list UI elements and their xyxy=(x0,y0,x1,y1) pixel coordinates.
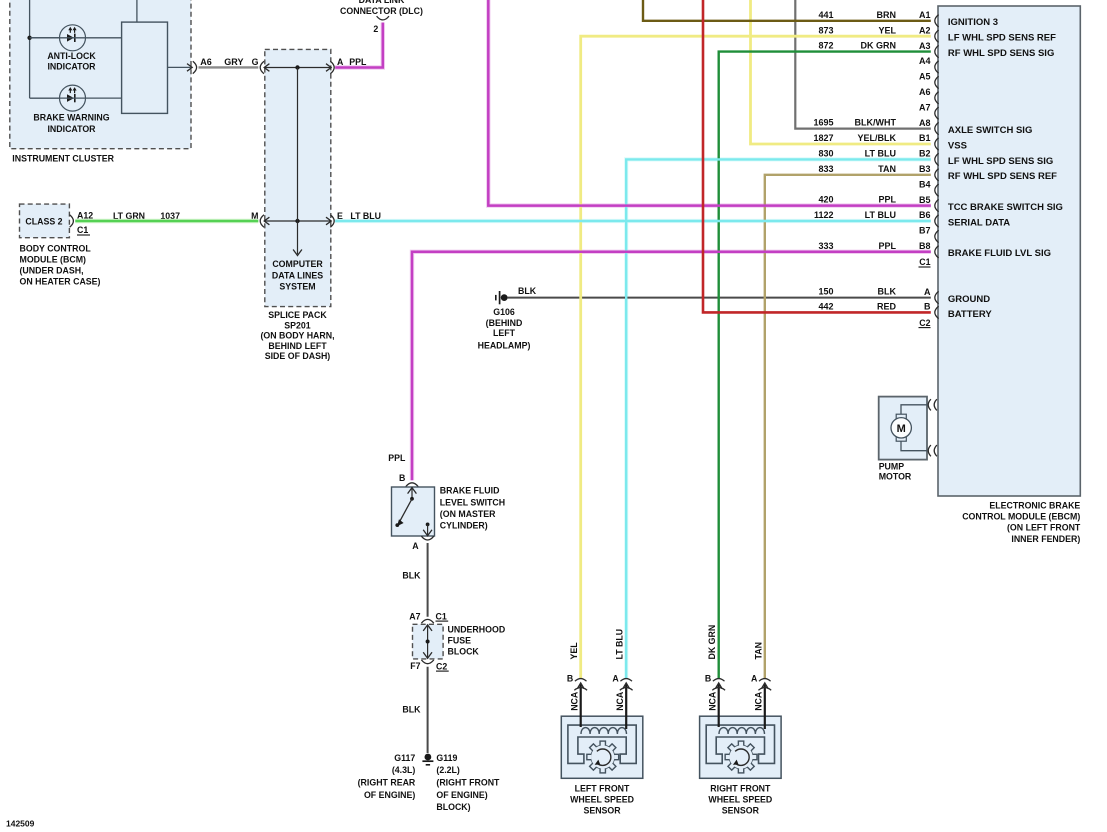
connector EBCM pin A7 xyxy=(935,107,939,119)
svg-text:WHEEL SPEED: WHEEL SPEED xyxy=(708,795,772,805)
EBCM box xyxy=(938,6,1080,496)
svg-text:B4: B4 xyxy=(919,179,931,189)
wire RED 442 xyxy=(703,0,931,312)
label CLASS 2 xyxy=(25,217,62,227)
label TAN (vertical) xyxy=(753,642,763,659)
svg-text:B1: B1 xyxy=(919,133,931,143)
connector EBCM pin B1 xyxy=(935,138,939,150)
wire IC left bus xyxy=(30,0,60,98)
svg-text:FUSE: FUSE xyxy=(448,636,472,646)
svg-text:WHEEL SPEED: WHEEL SPEED xyxy=(570,795,634,805)
svg-text:873: 873 xyxy=(818,25,833,35)
svg-text:SENSOR: SENSOR xyxy=(722,806,760,816)
connector LF sensor pin B xyxy=(567,674,587,691)
label G119 column xyxy=(436,753,500,812)
label A7 C1 xyxy=(409,611,448,621)
svg-text:NCA: NCA xyxy=(569,691,579,711)
connector splice pin A xyxy=(330,61,334,73)
svg-text:YEL: YEL xyxy=(569,642,579,660)
svg-text:BRN: BRN xyxy=(877,10,897,20)
label 833 TAN xyxy=(818,164,896,174)
wire lamp1 to driver xyxy=(30,37,122,39)
svg-text:1695: 1695 xyxy=(813,118,833,128)
label A12 C1 xyxy=(77,210,93,235)
splice pack box xyxy=(265,49,331,306)
svg-text:BLK: BLK xyxy=(518,286,537,296)
connector RF sensor pin A xyxy=(751,674,771,691)
label 872 DK GRN xyxy=(818,41,896,51)
svg-text:OF ENGINE): OF ENGINE) xyxy=(364,790,415,800)
label ANTI-LOCK INDICATOR xyxy=(47,51,96,72)
svg-text:B8: B8 xyxy=(919,241,931,251)
wire DK GRN 872 (EBCM A3 to RF sensor B) xyxy=(719,52,931,678)
svg-text:BLK: BLK xyxy=(878,287,897,297)
svg-text:LT BLU: LT BLU xyxy=(350,211,381,221)
wire BLK fuse block to ground xyxy=(427,667,429,753)
svg-text:BRAKE FLUID: BRAKE FLUID xyxy=(440,486,500,496)
underhood fuse block box xyxy=(413,624,444,659)
svg-text:CYLINDER): CYLINDER) xyxy=(440,521,488,531)
svg-text:G106: G106 xyxy=(493,307,515,317)
svg-text:(4.3L): (4.3L) xyxy=(392,765,416,775)
label 1122 LT BLU xyxy=(814,210,896,220)
brake warning indicator lamp xyxy=(60,85,86,111)
svg-text:BLK/WHT: BLK/WHT xyxy=(855,118,897,128)
svg-text:(ON MASTER: (ON MASTER xyxy=(440,509,496,519)
svg-text:C2: C2 xyxy=(436,661,447,671)
label COMPUTER DATA LINES SYSTEM xyxy=(272,259,323,292)
svg-text:MOTOR: MOTOR xyxy=(879,472,912,482)
label PPL (DLC) xyxy=(349,57,367,67)
connector EBCM pin B3 xyxy=(935,169,939,181)
svg-text:LF WHL SPD SENS SIG: LF WHL SPD SENS SIG xyxy=(948,156,1053,167)
wire LT BLU 1122 (splice E to EBCM B6) xyxy=(335,220,931,222)
svg-text:PPL: PPL xyxy=(388,453,406,463)
svg-text:PPL: PPL xyxy=(878,195,896,205)
svg-text:CONTROL MODULE (EBCM): CONTROL MODULE (EBCM) xyxy=(962,512,1080,522)
label UNDERHOOD FUSE BLOCK xyxy=(448,624,506,656)
svg-text:LEFT FRONT: LEFT FRONT xyxy=(575,783,630,793)
svg-text:(UNDER DASH,: (UNDER DASH, xyxy=(20,265,84,275)
svg-text:A7: A7 xyxy=(409,611,420,621)
connector EBCM pin A5 xyxy=(935,76,939,88)
svg-text:M: M xyxy=(897,423,906,435)
label 1827 YEL/BLK xyxy=(813,133,896,143)
IC driver block xyxy=(122,22,168,113)
label G106 xyxy=(478,307,531,350)
svg-text:(RIGHT FRONT: (RIGHT FRONT xyxy=(436,778,500,788)
svg-text:SPLICE PACK: SPLICE PACK xyxy=(268,310,327,320)
svg-text:CLASS 2: CLASS 2 xyxy=(25,217,62,227)
svg-text:LF WHL SPD SENS REF: LF WHL SPD SENS REF xyxy=(948,33,1056,44)
svg-text:RIGHT FRONT: RIGHT FRONT xyxy=(710,783,771,793)
svg-text:A: A xyxy=(751,674,758,684)
switch internals xyxy=(395,488,432,536)
svg-text:YEL: YEL xyxy=(878,25,896,35)
svg-text:COMPUTER: COMPUTER xyxy=(272,259,323,269)
svg-text:A4: A4 xyxy=(919,56,931,66)
label F7 C2 xyxy=(410,661,448,672)
svg-text:CONNECTOR (DLC): CONNECTOR (DLC) xyxy=(340,6,423,16)
svg-text:441: 441 xyxy=(818,10,833,20)
svg-text:833: 833 xyxy=(818,164,833,174)
wire LT GRN 1037 xyxy=(75,220,258,223)
svg-text:C1: C1 xyxy=(77,225,88,235)
connector EBCM pin B6 xyxy=(935,215,939,227)
connector EBCM pin A8 xyxy=(935,122,939,134)
svg-text:BATTERY: BATTERY xyxy=(948,309,992,320)
label A6 GRY xyxy=(200,57,243,67)
label DK GRN (vertical) xyxy=(707,625,717,660)
junction IC bus xyxy=(27,36,31,40)
wire BLK 150 (G106 to EBCM A) xyxy=(508,297,931,299)
svg-text:SERIAL DATA: SERIAL DATA xyxy=(948,217,1010,228)
svg-text:NCA: NCA xyxy=(615,691,625,711)
svg-text:150: 150 xyxy=(818,287,833,297)
svg-text:C1: C1 xyxy=(919,257,930,267)
label PPL (switch) xyxy=(388,453,406,463)
connector fuse block pin A7 xyxy=(421,619,433,623)
connector LF sensor pin A xyxy=(612,674,632,691)
svg-text:A1: A1 xyxy=(919,10,931,20)
wire BLK/WHT 1695 xyxy=(795,0,931,129)
svg-text:SP201: SP201 xyxy=(284,320,311,330)
svg-text:G119: G119 xyxy=(436,753,457,763)
svg-text:G117: G117 xyxy=(394,753,415,763)
junction splice row1 xyxy=(295,65,299,69)
svg-text:A: A xyxy=(924,287,931,297)
wire YEL/BLK 1827 xyxy=(751,0,931,144)
svg-text:A3: A3 xyxy=(919,41,931,51)
label NCA (RF B) xyxy=(707,691,717,711)
label BLK (upper) xyxy=(402,571,421,581)
connector splice pin M xyxy=(260,215,264,227)
svg-text:G: G xyxy=(252,57,259,67)
BCM box xyxy=(20,204,70,238)
svg-text:SYSTEM: SYSTEM xyxy=(279,281,315,291)
svg-text:BLOCK): BLOCK) xyxy=(436,802,470,812)
svg-text:TCC BRAKE SWITCH SIG: TCC BRAKE SWITCH SIG xyxy=(948,202,1063,213)
svg-text:LEVEL SWITCH: LEVEL SWITCH xyxy=(440,497,505,507)
label 420 PPL xyxy=(818,195,896,205)
svg-text:INDICATOR: INDICATOR xyxy=(47,124,96,134)
svg-text:BLK: BLK xyxy=(402,705,421,715)
wire LT BLU 830 (EBCM B2 to LF sensor A) xyxy=(626,159,931,678)
svg-text:B3: B3 xyxy=(919,164,931,174)
svg-text:RED: RED xyxy=(877,302,897,312)
svg-text:442: 442 xyxy=(818,302,833,312)
anti-lock indicator lamp xyxy=(60,25,86,51)
label switch pin B xyxy=(399,473,405,483)
connector DLC pin 2 xyxy=(377,16,389,20)
svg-text:ON HEATER CASE): ON HEATER CASE) xyxy=(20,276,101,286)
svg-text:C2: C2 xyxy=(919,318,930,328)
labels EBCM signals xyxy=(948,17,1063,320)
svg-text:A7: A7 xyxy=(919,102,931,112)
diagram id 142509 xyxy=(6,819,35,829)
wire PPL DLC to splice A xyxy=(335,23,383,68)
label NCA (RF A) xyxy=(754,691,764,711)
connector EBCM pin B2 xyxy=(935,153,939,165)
svg-text:830: 830 xyxy=(818,149,833,159)
wire GRY A6 xyxy=(199,66,259,68)
label BRAKE WARNING INDICATOR xyxy=(33,113,109,134)
svg-text:RF WHL SPD SENS REF: RF WHL SPD SENS REF xyxy=(948,171,1057,182)
connector BCM pin A12 xyxy=(70,215,74,227)
connector splice pin E xyxy=(330,215,334,227)
svg-text:LT BLU: LT BLU xyxy=(865,149,896,159)
connector pump motor bottom xyxy=(928,445,937,456)
svg-text:(ON LEFT FRONT: (ON LEFT FRONT xyxy=(1007,523,1081,533)
wire casing LT BLU 830 xyxy=(626,159,931,678)
svg-text:INSTRUMENT CLUSTER: INSTRUMENT CLUSTER xyxy=(12,154,114,164)
label BRAKE FLUID LEVEL SWITCH xyxy=(440,486,505,531)
label 441 BRN xyxy=(818,10,896,20)
svg-text:MODULE (BCM): MODULE (BCM) xyxy=(20,254,87,264)
connector EBCM pin A6 xyxy=(935,92,939,104)
label YEL (vertical) xyxy=(569,642,579,660)
label 873 YEL xyxy=(818,25,896,35)
svg-text:A5: A5 xyxy=(919,72,931,82)
svg-text:420: 420 xyxy=(818,195,833,205)
fuse block internals xyxy=(423,625,432,658)
wire TAN 833 (EBCM B3 to RF sensor A) xyxy=(765,175,931,678)
wire casing LT BLU 1122 xyxy=(335,219,931,223)
right front wheel speed sensor xyxy=(700,684,782,816)
connector splice pin G xyxy=(260,61,264,73)
connector switch pin B xyxy=(406,483,418,487)
instrument cluster box xyxy=(10,0,191,149)
label PUMP MOTOR xyxy=(879,462,912,482)
svg-text:(ON BODY HARN,: (ON BODY HARN, xyxy=(260,331,334,341)
motor M symbol xyxy=(891,414,911,441)
svg-text:SIDE OF DASH): SIDE OF DASH) xyxy=(265,351,331,361)
svg-text:YEL/BLK: YEL/BLK xyxy=(857,133,896,143)
svg-text:A: A xyxy=(612,674,619,684)
label 830 LT BLU xyxy=(818,149,896,159)
wire BLK switch to fuse block xyxy=(427,543,429,617)
wire casing PPL (DLC) xyxy=(335,23,383,68)
svg-text:A8: A8 xyxy=(919,118,931,128)
pump motor box xyxy=(879,397,927,460)
svg-text:2: 2 xyxy=(373,24,378,34)
connector pump motor top xyxy=(928,399,937,410)
svg-text:DATA LINK: DATA LINK xyxy=(359,0,405,5)
svg-text:F7: F7 xyxy=(410,661,420,671)
svg-text:(RIGHT REAR: (RIGHT REAR xyxy=(358,778,416,788)
connector IC pin A6 xyxy=(187,61,197,73)
label BLK (G106) xyxy=(518,286,537,296)
connector EBCM pin B7 xyxy=(935,230,939,242)
label BLK (lower) xyxy=(402,705,421,715)
svg-text:(BEHIND: (BEHIND xyxy=(486,318,523,328)
svg-text:ELECTRONIC BRAKE: ELECTRONIC BRAKE xyxy=(989,501,1080,511)
svg-text:B: B xyxy=(567,674,573,684)
svg-text:PPL: PPL xyxy=(878,241,896,251)
svg-text:DK GRN: DK GRN xyxy=(861,41,897,51)
svg-text:LT BLU: LT BLU xyxy=(615,629,625,660)
svg-text:B: B xyxy=(924,302,931,312)
wire casing PPL 333 xyxy=(412,252,931,480)
connector EBCM pin B5 xyxy=(935,199,939,211)
junction splice row2 xyxy=(295,219,299,223)
svg-text:UNDERHOOD: UNDERHOOD xyxy=(448,624,506,634)
svg-text:TAN: TAN xyxy=(753,642,763,659)
svg-text:SENSOR: SENSOR xyxy=(583,806,621,816)
wire BRN 441 xyxy=(643,0,931,21)
svg-text:BLK: BLK xyxy=(402,571,421,581)
svg-text:BRAKE WARNING: BRAKE WARNING xyxy=(33,113,109,123)
label 150 BLK xyxy=(818,287,896,297)
label NCA (LF A) xyxy=(615,691,625,711)
label DLC pin 2 xyxy=(373,24,378,34)
brake fluid level switch box xyxy=(392,487,435,536)
svg-text:A2: A2 xyxy=(919,25,931,35)
label 442 RED xyxy=(818,302,896,312)
connector switch pin A xyxy=(421,536,433,540)
connector EBCM pin A3 xyxy=(935,45,939,57)
label E LT BLU xyxy=(350,211,381,221)
wire YEL 873 (EBCM A2 to LF sensor B) xyxy=(581,36,931,678)
svg-text:B5: B5 xyxy=(919,195,931,205)
label BODY CONTROL MODULE xyxy=(20,243,101,286)
svg-text:BODY CONTROL: BODY CONTROL xyxy=(20,243,92,253)
ground G106 xyxy=(496,291,508,304)
labels EBCM pin ids xyxy=(919,10,931,312)
label LT BLU (vertical) xyxy=(615,629,625,660)
svg-text:A6: A6 xyxy=(919,87,931,97)
svg-text:BRAKE FLUID LVL SIG: BRAKE FLUID LVL SIG xyxy=(948,248,1051,259)
ground G117/G119 xyxy=(422,754,433,765)
connector EBCM pin A1 xyxy=(935,15,939,27)
svg-text:(2.2L): (2.2L) xyxy=(436,765,460,775)
svg-text:NCA: NCA xyxy=(754,691,764,711)
svg-text:B6: B6 xyxy=(919,210,931,220)
connector EBCM pin A xyxy=(935,291,939,303)
connector EBCM pin B4 xyxy=(935,184,939,196)
label SPLICE PACK SP201 xyxy=(260,310,334,361)
label C1 (EBCM) xyxy=(919,257,931,267)
svg-text:1122: 1122 xyxy=(814,210,834,220)
svg-text:NCA: NCA xyxy=(707,691,717,711)
connector RF sensor pin B xyxy=(705,674,725,691)
svg-text:333: 333 xyxy=(818,241,833,251)
label NCA (LF B) xyxy=(569,691,579,711)
label 1695 BLK/WHT xyxy=(813,118,896,128)
connector EBCM pin B8 xyxy=(935,246,939,258)
svg-text:TAN: TAN xyxy=(878,164,896,174)
svg-text:A: A xyxy=(412,541,419,551)
label ELECTRONIC BRAKE CONTROL MODULE xyxy=(962,501,1081,544)
splice row G-A xyxy=(264,64,331,72)
svg-text:DATA LINES: DATA LINES xyxy=(272,270,323,280)
splice row M-E xyxy=(264,217,331,225)
svg-text:VSS: VSS xyxy=(948,140,967,151)
svg-text:A6: A6 xyxy=(200,57,212,67)
label 333 PPL xyxy=(818,241,896,251)
label splice pins xyxy=(251,57,344,221)
svg-text:IGNITION 3: IGNITION 3 xyxy=(948,17,998,28)
connector EBCM pin A2 xyxy=(935,30,939,42)
label switch pin A xyxy=(412,541,419,551)
svg-text:INNER FENDER): INNER FENDER) xyxy=(1011,534,1080,544)
svg-text:RF WHL SPD SENS SIG: RF WHL SPD SENS SIG xyxy=(948,48,1054,59)
svg-text:PUMP: PUMP xyxy=(879,462,905,472)
label C2 (EBCM) xyxy=(919,318,931,328)
svg-text:GROUND: GROUND xyxy=(948,294,990,305)
wire IC driver top xyxy=(136,0,138,22)
wire PPL 333 (EBCM B8 to fluid switch) xyxy=(412,252,931,480)
svg-text:B2: B2 xyxy=(919,149,931,159)
svg-text:INDICATOR: INDICATOR xyxy=(47,62,96,72)
wire IC output xyxy=(168,66,192,68)
connector EBCM pin A4 xyxy=(935,61,939,73)
wire PPL 420 xyxy=(488,0,931,206)
label DATA LINK CONNECTOR (DLC) xyxy=(340,0,423,16)
svg-text:142509: 142509 xyxy=(6,819,35,829)
pump motor wires xyxy=(901,405,927,451)
wire lamp2 to driver xyxy=(30,97,122,99)
svg-text:B7: B7 xyxy=(919,226,931,236)
svg-text:HEADLAMP): HEADLAMP) xyxy=(478,340,531,350)
svg-text:B: B xyxy=(399,473,405,483)
svg-text:ANTI-LOCK: ANTI-LOCK xyxy=(47,51,96,61)
label G117 column xyxy=(358,753,416,800)
svg-text:872: 872 xyxy=(818,41,833,51)
svg-text:B: B xyxy=(705,674,711,684)
label INSTRUMENT CLUSTER xyxy=(12,154,114,164)
svg-text:LT BLU: LT BLU xyxy=(865,210,896,220)
wire casing PPL 420 xyxy=(488,0,931,206)
svg-text:AXLE SWITCH SIG: AXLE SWITCH SIG xyxy=(948,125,1032,136)
connector fuse block pin F7 xyxy=(421,660,433,664)
svg-text:BEHIND LEFT: BEHIND LEFT xyxy=(268,341,327,351)
svg-text:OF ENGINE): OF ENGINE) xyxy=(436,790,487,800)
connector EBCM pin B xyxy=(935,306,939,318)
splice center bus xyxy=(293,68,302,256)
svg-text:C1: C1 xyxy=(436,611,447,621)
svg-text:LEFT: LEFT xyxy=(493,328,516,338)
svg-text:BLOCK: BLOCK xyxy=(448,647,480,657)
left front wheel speed sensor xyxy=(561,684,643,816)
wire casing LT GRN 1037 xyxy=(75,219,258,223)
label LT GRN 1037 xyxy=(113,211,180,221)
svg-text:1827: 1827 xyxy=(813,133,833,143)
svg-text:DK GRN: DK GRN xyxy=(707,625,717,660)
svg-text:GRY: GRY xyxy=(224,57,243,67)
